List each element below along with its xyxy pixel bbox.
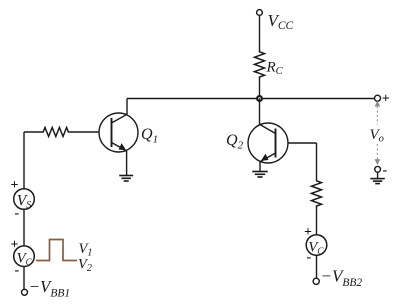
source VS <box>14 189 35 210</box>
terminal -VBB1 <box>22 289 28 295</box>
wire Q2 emitter <box>259 162 261 172</box>
resistor RB1 <box>42 128 70 137</box>
terminal output plus <box>375 95 381 101</box>
source VC1 <box>14 246 35 267</box>
wire <box>316 208 318 235</box>
transistor Q1 <box>99 113 138 152</box>
wire Q2 base <box>288 142 317 144</box>
source VC2 <box>306 235 327 256</box>
arrow up Vo <box>375 101 381 107</box>
ground Q1 <box>119 176 133 182</box>
wire <box>377 172 379 178</box>
svg-text:-: - <box>307 250 312 265</box>
ground Q2 <box>252 172 268 178</box>
wire <box>316 255 318 278</box>
terminal -VBB2 <box>313 278 319 284</box>
wire <box>259 15 261 50</box>
wire <box>316 143 318 179</box>
dashed line Vo upper <box>376 106 378 125</box>
wire Q1 emitter <box>126 151 128 176</box>
svg-text:-: - <box>383 163 388 178</box>
transistor Q2 <box>248 123 288 163</box>
wire base Q1 right segment <box>70 131 99 133</box>
junction node <box>257 96 262 101</box>
wire collector bus <box>127 98 375 100</box>
wire left vertical <box>23 132 25 189</box>
ground output <box>370 179 385 184</box>
resistor RE2 <box>312 179 322 208</box>
wire <box>23 267 25 290</box>
dashed line Vo lower <box>376 144 378 160</box>
wire <box>259 79 261 99</box>
wire Q1 collector <box>126 99 128 115</box>
wire base Q1 left segment <box>24 131 42 133</box>
svg-text:-: - <box>15 263 20 278</box>
terminal VCC <box>257 10 263 16</box>
wire <box>23 209 25 246</box>
resistor RC <box>255 50 265 79</box>
wire <box>259 99 261 126</box>
terminal output minus <box>375 166 381 172</box>
svg-text:+: + <box>382 92 390 107</box>
svg-text:-: - <box>15 206 20 221</box>
arrow down Vo <box>375 159 381 165</box>
pulse waveform <box>36 240 77 261</box>
